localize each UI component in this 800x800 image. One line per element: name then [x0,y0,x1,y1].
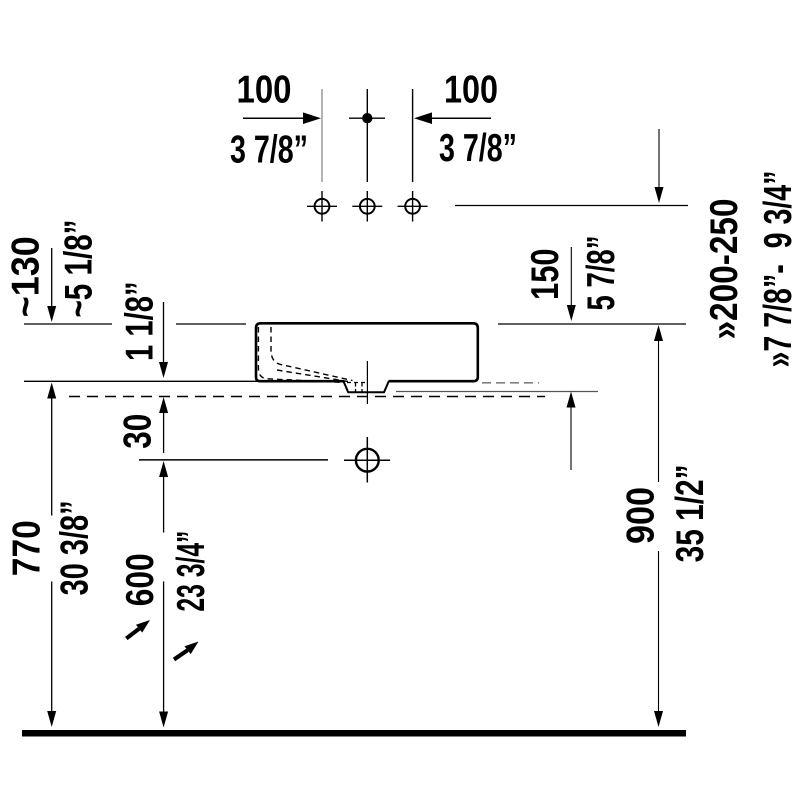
leader arrow for 600 [126,629,139,639]
drain circle crosshair horizontal [344,459,390,461]
gray dashed continuation of sink bottom [482,382,539,384]
drain centerline [366,361,368,404]
svg-text:~5 1/8”: ~5 1/8” [57,220,100,318]
down arrow to y205 line [658,129,660,188]
svg-text:35 1/2”: 35 1/2” [669,464,712,562]
floor bar [22,730,686,737]
drain height line y460 [139,459,328,461]
basin interior dashed inner [271,327,353,381]
svg-text:~130: ~130 [5,236,48,317]
reference line y205 [455,205,688,207]
svg-text:5 7/8”: 5 7/8” [580,236,623,311]
center dot [362,113,372,123]
basin interior dashed middle [277,370,348,382]
hole circle 2 [360,199,375,214]
drain circle crosshair vertical [366,437,368,483]
arrow right (100 left dim) [243,117,304,119]
svg-text:100: 100 [444,69,498,112]
black dashed line y396.5 [69,396,545,398]
hole circle 1 [315,199,330,214]
sink outline [256,323,478,381]
svg-text:1 1/8”: 1 1/8” [118,281,161,361]
hole circle 3 [405,199,420,214]
dim 30: up arrow at dashed line [159,397,168,413]
svg-text:30: 30 [116,414,159,449]
dim 900 line [654,325,663,341]
arrow left (100 right dim) [432,117,491,119]
dim line ~130 [51,248,53,307]
svg-text:23 3/4”: 23 3/4” [170,531,213,612]
svg-text:3 7/8”: 3 7/8” [230,129,308,172]
dim 770 line [47,383,56,399]
svg-text:600: 600 [119,553,162,606]
faucet hole vertical line left [321,89,323,182]
svg-text:900: 900 [620,487,663,544]
svg-text:»7 7/8”- 9 3/4”: »7 7/8”- 9 3/4” [757,170,800,367]
counter line y381 left of sink [24,380,345,382]
basin bottom dashed near drain [347,382,365,384]
drain circle [356,449,379,472]
faucet hole vertical line right [412,89,414,182]
svg-text:770: 770 [5,520,48,576]
dim line 150 [570,247,572,306]
center dot crosshair horizontal [349,117,385,119]
drain dashed vertical 1 [355,383,357,392]
thin counter bottom line y391.5 [396,391,598,393]
dim 600: up arrow under y460 line [159,461,168,477]
basin interior dashed outer [258,327,345,383]
svg-text:30 3/8”: 30 3/8” [54,500,97,595]
wall line y324 segment 2 [176,323,246,325]
svg-text:»200-250: »200-250 [703,199,746,340]
wall line y324 segment 1 [24,323,112,325]
svg-text:150: 150 [524,248,567,300]
drain dashed vertical 2 [361,383,363,392]
leader arrow for 23 3/4 [174,650,188,659]
svg-text:3 7/8”: 3 7/8” [439,127,517,170]
up arrow at x571 to counter bottom [570,406,572,470]
drain body [344,381,389,392]
svg-text:100: 100 [237,69,292,112]
wall line y324 segment 3 [498,323,686,325]
dim line 1 1/8" [163,302,165,363]
faucet centerline [366,89,368,182]
